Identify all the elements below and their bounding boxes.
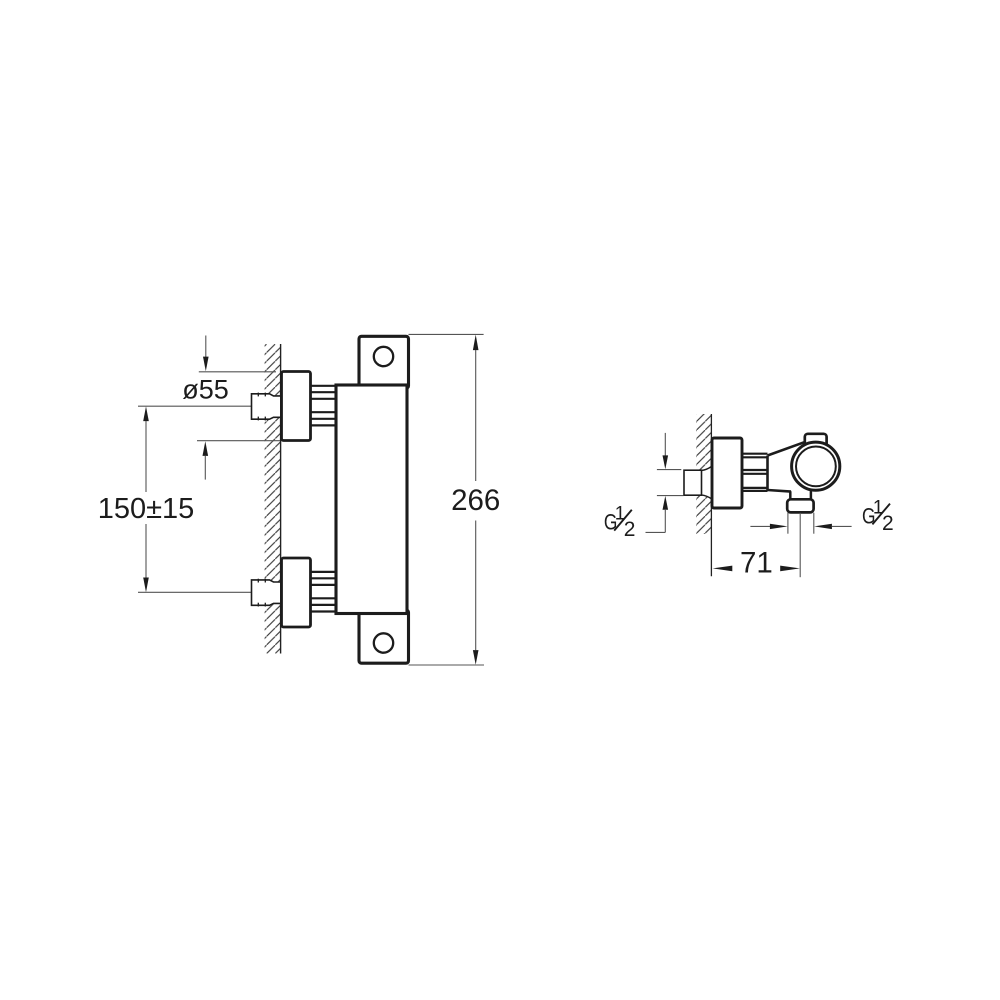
label G1/2 (left) [604,504,636,541]
outlet stub under valve [789,484,792,500]
dim 71 arrows [713,566,733,572]
inward arrows outlet OD [750,525,770,527]
top inlet connector (through wall) [252,393,281,421]
valve body (front) [336,385,407,614]
wall opening for inlet (right view) [700,466,711,499]
centerline of bottom inlet [138,591,261,593]
outlet centerline [799,513,801,577]
centerline of top inlet [138,405,261,407]
arrow up to inlet bottom with leader to G1/2 [663,496,669,510]
extension line escutcheon top [199,371,276,373]
wall face line (left view) [280,344,282,654]
top tab hole [374,347,393,366]
extension line tab top [409,333,484,335]
label G1/2 (right) [862,497,894,534]
dim arrow up to escutcheon bottom [203,441,209,456]
bottom escutcheon plate [282,558,311,627]
valve cone body (side) [768,442,816,492]
wall hatch (right view) [696,414,712,534]
bottom mounting tab [359,610,409,663]
knob inner circle [796,447,836,487]
svg-text:266: 266 [451,484,500,517]
dim line 150±15 [143,406,149,421]
svg-text:150±15: 150±15 [98,493,195,525]
bottom threaded nipple [311,572,337,612]
top mounting tab [359,336,409,388]
escutcheon (side) [712,438,742,508]
svg-text:2: 2 [882,512,894,535]
knob cap [805,434,827,448]
extension lines inlet OD [657,469,681,471]
svg-text:2: 2 [624,518,636,541]
svg-text:ø55: ø55 [182,375,229,405]
knob outer circle [792,442,840,490]
inlet connector (side) [684,467,711,499]
outlet nut [787,499,813,512]
top escutcheon plate [282,372,311,441]
top threaded nipple [311,386,337,426]
threaded nipple (side) [742,454,768,491]
dim arrow down to escutcheon top [205,336,207,358]
arrow down to inlet top [664,433,666,456]
extension line tab bottom [409,664,485,666]
svg-text:71: 71 [740,546,773,579]
bottom tab hole [374,633,393,652]
extension lines below nut [787,513,789,534]
dim line 266 [473,335,479,351]
bottom inlet connector (through wall) [252,579,281,607]
extension line escutcheon bottom [197,440,280,442]
wall hatch (left view) [265,344,281,654]
wall face line (right view) [710,414,712,576]
